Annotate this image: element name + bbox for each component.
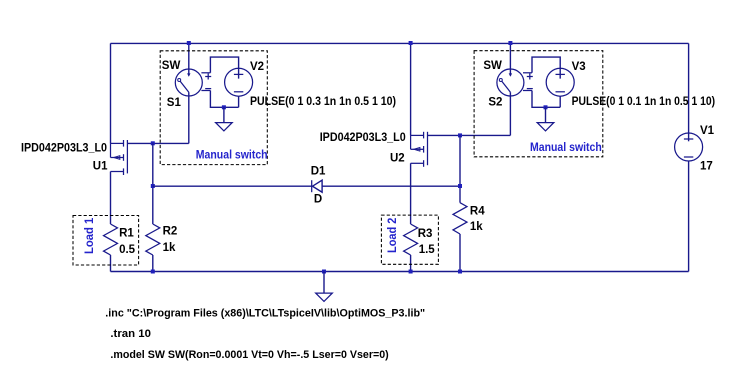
resistor R1 — [104, 224, 118, 272]
svg-text:Manual switch: Manual switch — [196, 149, 268, 161]
label V2 — [250, 61, 264, 73]
node junction U1 gate / R2 — [151, 141, 155, 145]
resistor R2 — [146, 224, 160, 272]
wire D1 anode side — [153, 185, 312, 187]
wire V1 right drop — [688, 43, 690, 141]
svg-text:Load 2: Load 2 — [387, 218, 399, 253]
label Manual switch 2 — [530, 142, 602, 154]
label IPD042P03L3_L0 (U1 value) — [21, 143, 107, 155]
label PULSE V3 value — [572, 96, 716, 108]
label D1 — [311, 166, 326, 178]
svg-text:S1: S1 — [167, 97, 182, 109]
svg-text:1.5: 1.5 — [419, 244, 436, 256]
wire U2 drain down to R3 — [410, 163, 412, 224]
svg-text:IPD042P03L3_L0: IPD042P03L3_L0 — [320, 132, 406, 144]
transistor U1 — [111, 140, 128, 175]
switch S1 — [175, 43, 211, 143]
svg-text:.model SW SW(Ron=0.0001 Vt=0 V: .model SW SW(Ron=0.0001 Vt=0 Vh=-.5 Lser… — [110, 349, 389, 361]
node junction S2 top rail — [508, 41, 512, 45]
wire R4 column — [459, 135, 461, 202]
wire S2 plus to V3 top — [532, 57, 560, 79]
svg-text:S2: S2 — [488, 96, 502, 108]
svg-text:R4: R4 — [470, 205, 485, 217]
node junction R4 bottom rail — [458, 270, 462, 274]
label U2 — [390, 153, 405, 165]
directive .inc — [105, 308, 425, 320]
transistor U2 — [411, 132, 428, 167]
svg-text:R2: R2 — [163, 226, 178, 238]
wire D1 cathode side to R4 column — [322, 185, 460, 187]
node junction S1 top rail — [187, 41, 191, 45]
label S2 — [488, 96, 502, 108]
node junction U2 source top rail — [409, 41, 413, 45]
svg-text:SW: SW — [483, 60, 502, 72]
label SW (S1) — [162, 60, 181, 72]
svg-text:Load 1: Load 1 — [84, 217, 96, 254]
label R4 — [470, 205, 485, 217]
voltage source V3 — [546, 68, 574, 107]
svg-text:SW: SW — [162, 60, 181, 72]
resistor R3 — [404, 224, 418, 272]
diode D1 — [312, 180, 322, 192]
label U1 — [93, 161, 108, 173]
svg-text:PULSE(0 1 0.3 1n 1n 0.5 1 10): PULSE(0 1 0.3 1n 1n 0.5 1 10) — [250, 96, 396, 108]
label R2 — [163, 226, 178, 238]
label 1k (R4) — [470, 221, 483, 233]
node junction ground tap box2 — [544, 105, 548, 109]
label IPD042P03L3_L0 (U2 value) — [320, 132, 406, 144]
switch S2 — [497, 43, 533, 135]
directive .tran — [110, 328, 151, 340]
wire bottom rail — [111, 271, 689, 273]
svg-text:V2: V2 — [250, 61, 264, 73]
node junction R2 bottom rail — [151, 270, 155, 274]
svg-text:R1: R1 — [119, 228, 134, 240]
directive .model — [110, 349, 389, 361]
wire U1 gate to S1 — [127, 142, 188, 144]
svg-text:IPD042P03L3_L0: IPD042P03L3_L0 — [21, 143, 107, 155]
svg-text:PULSE(0 1 0.1 1n 1n 0.5 1 10): PULSE(0 1 0.1 1n 1n 0.5 1 10) — [572, 96, 716, 108]
label R3 — [418, 228, 433, 240]
wire U2 gate to S2 — [428, 134, 511, 136]
svg-text:V3: V3 — [572, 61, 586, 73]
wire U1 source drop from top rail — [110, 43, 112, 143]
svg-text:Manual switch: Manual switch — [530, 142, 602, 154]
label PULSE V2 value — [250, 96, 396, 108]
wire S2 minus to V3 bottom — [532, 91, 560, 108]
svg-text:U2: U2 — [390, 153, 405, 165]
dashed box Load 2 — [381, 215, 438, 264]
svg-text:0.5: 0.5 — [119, 244, 136, 256]
node junction R4/D1 wire — [458, 184, 462, 188]
node junction R2/D1 wire — [151, 184, 155, 188]
svg-text:.inc "C:\Program Files (x86)\L: .inc "C:\Program Files (x86)\LTC\LTspice… — [105, 308, 425, 320]
resistor R4 — [453, 203, 467, 272]
label D (D1 value) — [314, 194, 322, 206]
wire R2 column (gate node down through D1 node) — [152, 143, 154, 224]
label Load 2 — [387, 218, 399, 253]
svg-text:1k: 1k — [470, 221, 483, 233]
label Manual switch 1 — [196, 149, 268, 161]
ground (box1) — [216, 107, 233, 131]
label SW (S2) — [483, 60, 502, 72]
svg-text:D: D — [314, 194, 322, 206]
label 17 (V1 value) — [700, 160, 713, 172]
wire S1 plus to V2 top — [210, 57, 238, 79]
ground (box2) — [537, 107, 554, 131]
svg-text:1k: 1k — [163, 242, 176, 254]
voltage source V1 — [675, 133, 703, 161]
wire U1 drain down to R1 — [110, 172, 112, 225]
label 1k (R2) — [163, 242, 176, 254]
dashed box Load 1 — [73, 216, 139, 266]
svg-text:R3: R3 — [418, 228, 433, 240]
node junction R3 bottom rail — [409, 270, 413, 274]
wire U2 source drop — [410, 43, 412, 135]
node junction ground tap box1 — [222, 105, 226, 109]
svg-text:17: 17 — [700, 160, 713, 172]
dashed box manual switch 2 — [474, 51, 603, 157]
svg-text:.tran 10: .tran 10 — [110, 328, 151, 340]
svg-text:D1: D1 — [311, 166, 326, 178]
wire V1 bottom to rail — [688, 161, 690, 272]
label R1 — [119, 228, 134, 240]
wire S1 minus to V2 bottom — [210, 91, 238, 108]
ground (bottom center) — [316, 272, 333, 302]
node junction bottom rail ground tap — [322, 270, 326, 274]
svg-text:V1: V1 — [700, 125, 715, 137]
label 0.5 (R1) — [119, 244, 136, 256]
svg-text:U1: U1 — [93, 161, 108, 173]
label 1.5 (R3) — [419, 244, 436, 256]
label V1 — [700, 125, 715, 137]
dashed box manual switch 1 — [160, 51, 267, 165]
wire top rail — [111, 42, 689, 44]
node junction U2 gate / R4 column — [458, 133, 462, 137]
voltage source V2 — [225, 68, 253, 107]
label Load 1 — [84, 217, 96, 254]
label S1 — [167, 97, 182, 109]
label V3 — [572, 61, 586, 73]
